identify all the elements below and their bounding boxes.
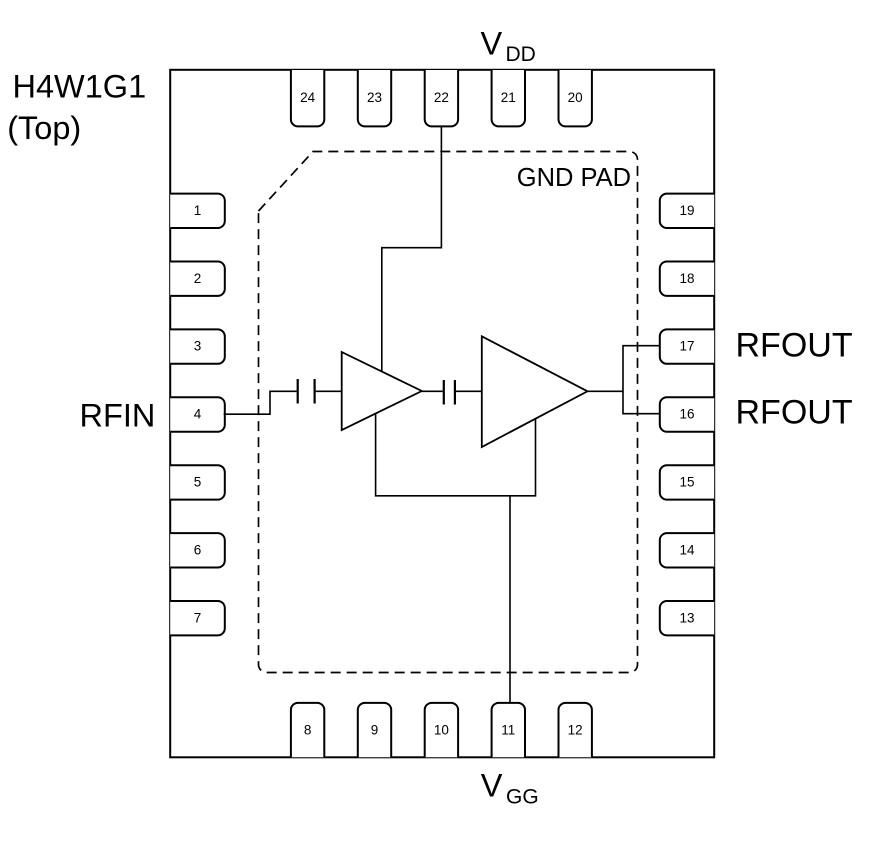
- pin 23: [358, 70, 391, 126]
- pin 20: [559, 70, 592, 126]
- wire VGG feedback from U1 and U2 bottoms: [376, 413, 536, 495]
- pin 6: [170, 533, 225, 567]
- pin 8: [291, 703, 324, 757]
- label VDD: [481, 26, 536, 67]
- svg-text:22: 22: [434, 90, 449, 105]
- svg-text:3: 3: [194, 339, 202, 354]
- wire capacitor C2 to amplifier U2: [456, 390, 482, 392]
- wire RFIN from pin 4 to capacitor C1: [224, 391, 297, 414]
- pin 17: [660, 329, 714, 363]
- label RFIN: [80, 397, 156, 433]
- label RFOUT pin17: [736, 327, 853, 365]
- svg-text:19: 19: [679, 203, 694, 218]
- svg-text:17: 17: [679, 339, 694, 354]
- pin 18: [660, 262, 714, 296]
- svg-text:V: V: [481, 26, 503, 62]
- svg-text:8: 8: [304, 722, 312, 737]
- svg-text:5: 5: [194, 475, 202, 490]
- wire VDD from pin 22 to amplifier U1: [382, 126, 442, 371]
- svg-text:7: 7: [194, 610, 202, 625]
- svg-text:20: 20: [568, 90, 583, 105]
- label RFOUT pin16: [736, 394, 853, 432]
- pin 13: [660, 601, 714, 635]
- svg-text:1: 1: [194, 203, 202, 218]
- svg-text:10: 10: [434, 722, 449, 737]
- pin 4: [170, 397, 225, 431]
- pin 14: [660, 533, 714, 567]
- svg-text:RFOUT: RFOUT: [736, 394, 853, 432]
- wire amplifier U1 output to capacitor C2: [422, 390, 443, 392]
- svg-text:15: 15: [679, 475, 694, 490]
- pin 22: [425, 70, 458, 126]
- svg-text:RFOUT: RFOUT: [736, 327, 853, 365]
- svg-text:2: 2: [194, 271, 202, 286]
- label GND PAD: [517, 164, 631, 192]
- svg-text:RFIN: RFIN: [80, 397, 156, 433]
- title H4W1G1 (Top): [7, 69, 146, 146]
- pin 19: [660, 194, 714, 228]
- svg-text:18: 18: [679, 271, 694, 286]
- svg-text:12: 12: [568, 722, 583, 737]
- pin 5: [170, 465, 225, 499]
- pin 11: [492, 703, 525, 757]
- wire capacitor C1 to amplifier U1: [316, 390, 342, 392]
- svg-text:21: 21: [501, 90, 516, 105]
- svg-text:DD: DD: [506, 43, 536, 66]
- wire amplifier U2 output to RFOUT bracket: [588, 390, 624, 392]
- capacitor C1: [298, 379, 315, 404]
- pin 21: [492, 70, 525, 126]
- pin 24: [291, 70, 324, 126]
- svg-text:13: 13: [679, 610, 694, 625]
- svg-text:11: 11: [501, 722, 515, 737]
- pin 16: [660, 397, 714, 431]
- svg-text:14: 14: [679, 542, 695, 557]
- svg-text:V: V: [481, 768, 503, 804]
- wire VGG tap to pin 11: [509, 496, 511, 703]
- svg-text:9: 9: [371, 722, 379, 737]
- label VGG: [481, 768, 539, 809]
- svg-text:GG: GG: [506, 786, 539, 809]
- GND pad dashed outline: [259, 152, 638, 673]
- svg-text:(Top): (Top): [7, 110, 81, 146]
- svg-text:GND PAD: GND PAD: [517, 164, 631, 192]
- svg-text:6: 6: [194, 542, 202, 557]
- wire RFOUT bracket to pins 17 and 16: [623, 346, 660, 414]
- pin 12: [559, 703, 592, 757]
- capacitor C2: [444, 380, 455, 405]
- svg-text:4: 4: [194, 407, 202, 422]
- svg-text:23: 23: [367, 90, 382, 105]
- pin 2: [170, 262, 225, 296]
- pin 10: [425, 703, 458, 757]
- pin 3: [170, 329, 225, 363]
- pin 7: [170, 601, 225, 635]
- chip package outline: [170, 70, 714, 758]
- amplifier U2: [482, 336, 588, 447]
- svg-text:H4W1G1: H4W1G1: [13, 69, 147, 105]
- svg-text:16: 16: [679, 407, 694, 422]
- pin 15: [660, 465, 714, 499]
- pin 9: [358, 703, 391, 757]
- pin 1: [170, 194, 225, 228]
- svg-text:24: 24: [300, 90, 316, 105]
- amplifier U1: [342, 352, 422, 430]
